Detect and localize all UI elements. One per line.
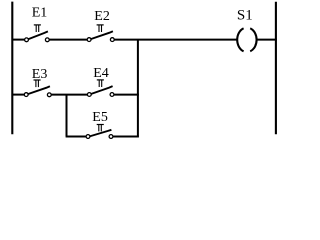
svg-text:E2: E2 (94, 9, 110, 24)
svg-text:E5: E5 (92, 110, 108, 125)
svg-text:E4: E4 (93, 66, 109, 81)
svg-text:E1: E1 (32, 5, 48, 20)
svg-text:E3: E3 (32, 67, 48, 82)
svg-text:S1: S1 (237, 7, 253, 23)
